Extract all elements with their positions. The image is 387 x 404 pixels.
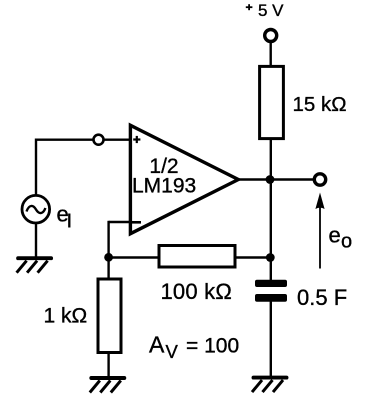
svg-text:LM193: LM193 bbox=[132, 175, 196, 198]
svg-text:1 kΩ: 1 kΩ bbox=[44, 305, 88, 328]
svg-text:A: A bbox=[149, 332, 165, 358]
svg-text:5 V: 5 V bbox=[258, 1, 284, 20]
svg-text:15 kΩ: 15 kΩ bbox=[293, 93, 347, 116]
svg-text:= 100: = 100 bbox=[186, 335, 239, 358]
svg-text:V: V bbox=[166, 341, 179, 362]
svg-text:e: e bbox=[329, 223, 341, 248]
svg-text:0.5 F: 0.5 F bbox=[297, 285, 347, 310]
svg-text:o: o bbox=[341, 231, 352, 253]
svg-text:e: e bbox=[57, 201, 69, 226]
svg-text:100 kΩ: 100 kΩ bbox=[161, 279, 232, 304]
